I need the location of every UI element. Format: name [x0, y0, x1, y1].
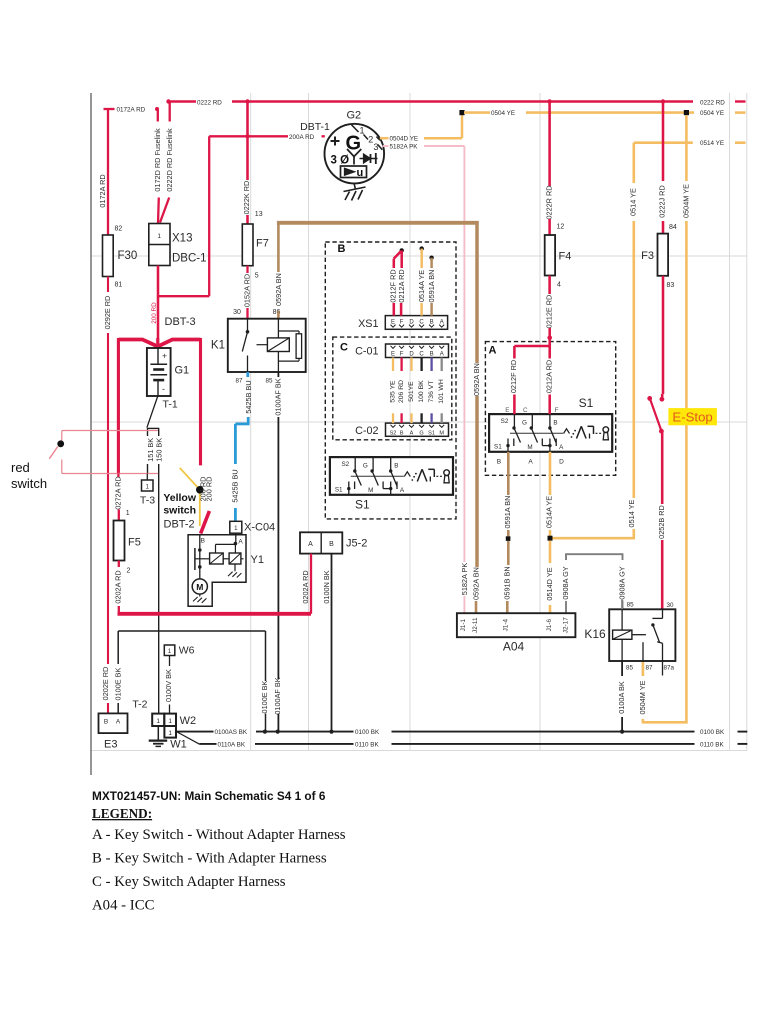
svg-text:+: + [162, 351, 167, 361]
svg-text:0202A RD: 0202A RD [301, 570, 310, 603]
svg-text:X13: X13 [172, 233, 192, 245]
svg-text:0222J RD: 0222J RD [657, 185, 666, 217]
svg-text:0504M YE: 0504M YE [682, 184, 691, 218]
svg-text:A: A [308, 541, 313, 548]
svg-text:E: E [505, 407, 509, 414]
svg-text:F5: F5 [128, 537, 141, 549]
svg-text:C-01: C-01 [355, 346, 378, 358]
svg-text:0514 YE: 0514 YE [628, 188, 637, 216]
svg-text:501YE: 501YE [408, 381, 415, 402]
svg-text:4: 4 [557, 282, 561, 289]
svg-text:M: M [196, 582, 203, 592]
svg-text:0514 YE: 0514 YE [627, 499, 636, 527]
svg-text:0592A BN: 0592A BN [471, 567, 480, 600]
svg-text:-: - [162, 384, 165, 394]
svg-text:A: A [489, 345, 497, 357]
svg-text:0514 YE: 0514 YE [700, 140, 724, 147]
svg-text:84: 84 [669, 224, 677, 231]
svg-text:81: 81 [115, 282, 123, 289]
svg-text:Yellow: Yellow [163, 492, 197, 504]
svg-text:A: A [440, 319, 444, 325]
svg-text:85: 85 [265, 378, 273, 385]
svg-text:C - Key Switch Adapter Harness: C - Key Switch Adapter Harness [92, 874, 286, 890]
svg-text:A: A [410, 430, 414, 436]
svg-text:3 Ø: 3 Ø [331, 155, 350, 167]
svg-text:B: B [430, 319, 434, 325]
svg-text:MXT021457-UN: Main Schematic S: MXT021457-UN: Main Schematic S4 1 of 6 [92, 789, 326, 803]
svg-text:F: F [400, 319, 404, 325]
svg-text:J1-1: J1-1 [460, 619, 467, 632]
svg-text:A04: A04 [503, 640, 525, 654]
svg-text:K16: K16 [584, 627, 606, 641]
svg-text:0100E BK: 0100E BK [260, 680, 269, 713]
svg-text:0591A BN: 0591A BN [503, 496, 512, 529]
svg-text:0110 BK: 0110 BK [355, 741, 379, 748]
svg-text:0172A RD: 0172A RD [117, 107, 146, 114]
svg-text:B: B [497, 458, 501, 465]
svg-text:S2: S2 [501, 418, 509, 425]
svg-text:0100AS BK: 0100AS BK [215, 729, 248, 736]
svg-text:B: B [400, 430, 404, 436]
svg-text:0272A RD: 0272A RD [114, 476, 123, 509]
svg-text:B: B [338, 243, 346, 255]
svg-text:0100AF BK: 0100AF BK [273, 677, 282, 714]
svg-text:X-C04: X-C04 [244, 522, 275, 534]
svg-text:85: 85 [627, 602, 635, 609]
svg-text:0222 RD: 0222 RD [197, 99, 222, 106]
svg-text:S1: S1 [494, 444, 502, 451]
svg-text:206 RD: 206 RD [398, 380, 405, 403]
svg-text:T-3: T-3 [140, 495, 155, 507]
svg-text:535 YE: 535 YE [390, 380, 397, 403]
svg-text:0110A BK: 0110A BK [218, 741, 246, 748]
svg-text:u: u [357, 167, 364, 179]
svg-text:W2: W2 [180, 715, 197, 727]
svg-text:0212A RD: 0212A RD [397, 269, 406, 302]
svg-text:B: B [104, 718, 108, 725]
svg-text:0504D YE: 0504D YE [390, 136, 419, 143]
svg-text:0292E RD: 0292E RD [103, 296, 112, 330]
svg-text:0202A RD: 0202A RD [113, 570, 122, 603]
svg-text:0504 YE: 0504 YE [491, 110, 515, 117]
svg-text:B: B [201, 538, 205, 545]
svg-text:30: 30 [233, 309, 241, 316]
svg-text:C: C [523, 407, 528, 414]
svg-text:W1: W1 [170, 739, 187, 751]
svg-text:0592A BN: 0592A BN [274, 273, 283, 306]
svg-text:W6: W6 [179, 645, 195, 657]
svg-text:J5-2: J5-2 [346, 538, 367, 550]
svg-text:0504 YE: 0504 YE [700, 110, 724, 117]
svg-text:F7: F7 [256, 238, 269, 250]
svg-text:0152A RD: 0152A RD [242, 274, 251, 307]
svg-text:85: 85 [626, 665, 634, 672]
svg-text:F30: F30 [118, 250, 138, 262]
svg-text:J2-11: J2-11 [472, 617, 479, 633]
svg-text:101 WH: 101 WH [438, 379, 445, 404]
svg-text:0100 BK: 0100 BK [355, 729, 380, 736]
svg-text:1: 1 [168, 730, 172, 737]
svg-text:0514A YE: 0514A YE [545, 496, 554, 528]
svg-text:0212A RD: 0212A RD [545, 360, 554, 393]
svg-text:B: B [430, 351, 434, 357]
svg-text:F: F [555, 407, 559, 414]
svg-text:M: M [527, 444, 532, 451]
svg-text:1: 1 [157, 233, 161, 240]
svg-text:0222R RD: 0222R RD [545, 185, 554, 219]
svg-text:S2: S2 [390, 430, 397, 436]
svg-text:0592A BN: 0592A BN [472, 363, 481, 396]
svg-text:B: B [553, 420, 557, 427]
svg-text:0514D YE: 0514D YE [545, 567, 554, 600]
svg-text:G: G [522, 420, 527, 427]
svg-text:0212F RD: 0212F RD [509, 360, 518, 393]
svg-text:82: 82 [115, 226, 123, 233]
svg-text:A04 - ICC: A04 - ICC [92, 898, 155, 914]
svg-text:1: 1 [145, 484, 149, 491]
svg-text:87a: 87a [664, 665, 675, 672]
svg-text:M: M [439, 430, 444, 436]
svg-text:K1: K1 [211, 340, 225, 352]
svg-text:S1: S1 [428, 430, 435, 436]
svg-text:1: 1 [168, 718, 172, 725]
svg-text:200 RD: 200 RD [151, 302, 158, 324]
svg-text:red: red [11, 460, 30, 475]
svg-text:A - Key Switch - Without Adapt: A - Key Switch - Without Adapter Harness [92, 827, 346, 843]
svg-text:D: D [559, 458, 564, 465]
svg-text:150 BK: 150 BK [155, 438, 164, 462]
svg-text:83: 83 [667, 282, 675, 289]
svg-text:T-2: T-2 [132, 699, 147, 711]
svg-text:B - Key Switch - With Adapter: B - Key Switch - With Adapter Harness [92, 851, 327, 867]
svg-text:G2: G2 [347, 110, 362, 122]
svg-text:switch: switch [163, 505, 196, 517]
svg-text:DBT-2: DBT-2 [164, 519, 195, 531]
svg-text:DBT-1: DBT-1 [300, 121, 330, 133]
svg-text:0514A YE: 0514A YE [417, 270, 426, 302]
svg-text:5425B BU: 5425B BU [230, 469, 239, 502]
svg-text:0202E RD: 0202E RD [101, 667, 110, 701]
svg-text:0222K RD: 0222K RD [242, 181, 251, 215]
svg-text:A: A [238, 539, 243, 546]
svg-text:1: 1 [168, 648, 172, 655]
svg-text:1: 1 [360, 126, 365, 136]
svg-text:0591B BN: 0591B BN [502, 566, 511, 599]
svg-text:F4: F4 [559, 251, 572, 263]
svg-text:C-02: C-02 [355, 425, 378, 437]
svg-text:12: 12 [557, 224, 565, 231]
svg-text:J2-17: J2-17 [563, 617, 570, 633]
svg-text:0212E RD: 0212E RD [545, 295, 554, 329]
svg-text:5425B BU: 5425B BU [244, 380, 253, 413]
svg-text:E: E [391, 351, 395, 357]
svg-text:3: 3 [374, 142, 379, 152]
svg-text:87: 87 [646, 665, 654, 672]
svg-text:C: C [340, 342, 348, 354]
svg-text:D: D [409, 351, 414, 357]
svg-text:C: C [419, 351, 424, 357]
svg-text:5: 5 [255, 273, 259, 280]
svg-text:DBT-3: DBT-3 [165, 316, 196, 328]
svg-text:F3: F3 [641, 250, 654, 262]
svg-text:0252B RD: 0252B RD [657, 505, 666, 539]
svg-text:0100V BK: 0100V BK [164, 669, 173, 702]
svg-text:5182A PK: 5182A PK [390, 144, 419, 151]
svg-text:0100N BK: 0100N BK [322, 570, 331, 603]
svg-text:87: 87 [235, 378, 243, 385]
svg-text:J1-6: J1-6 [546, 619, 553, 632]
svg-text:1: 1 [156, 718, 160, 725]
svg-text:0172D RD Fuselink: 0172D RD Fuselink [153, 128, 162, 192]
svg-text:0172A RD: 0172A RD [98, 174, 107, 207]
svg-text:E: E [391, 319, 395, 325]
svg-text:0222D RD Fuselink: 0222D RD Fuselink [165, 128, 174, 192]
svg-text:Y1: Y1 [251, 554, 264, 566]
svg-text:1: 1 [234, 525, 238, 532]
svg-text:0504M YE: 0504M YE [638, 680, 647, 714]
svg-text:J1-4: J1-4 [502, 619, 509, 632]
svg-text:5182A PK: 5182A PK [460, 563, 469, 596]
svg-text:100 BK: 100 BK [418, 380, 425, 403]
svg-text:G: G [419, 430, 423, 436]
svg-text:0908A GY: 0908A GY [617, 566, 626, 599]
svg-text:LEGEND:: LEGEND: [92, 806, 152, 821]
svg-text:0100 BK: 0100 BK [700, 729, 725, 736]
svg-text:0591A BN: 0591A BN [427, 270, 436, 303]
svg-text:0222 RD: 0222 RD [700, 99, 725, 106]
svg-text:DBC-1: DBC-1 [172, 253, 207, 265]
svg-text:S1: S1 [579, 396, 594, 410]
svg-text:0908A GY: 0908A GY [561, 566, 570, 599]
svg-text:30: 30 [667, 602, 675, 609]
svg-text:A: A [528, 458, 533, 465]
svg-text:E-Stop: E-Stop [672, 410, 712, 425]
svg-text:200 RD: 200 RD [204, 477, 213, 502]
svg-text:736 VT: 736 VT [428, 381, 435, 403]
svg-text:2: 2 [127, 568, 131, 575]
svg-text:S1: S1 [355, 498, 370, 512]
svg-text:0100AF BK: 0100AF BK [274, 378, 283, 415]
svg-text:G1: G1 [175, 365, 190, 377]
svg-text:1: 1 [126, 510, 130, 517]
svg-text:XS1: XS1 [358, 318, 378, 330]
svg-text:T-1: T-1 [163, 399, 178, 411]
svg-text:13: 13 [255, 211, 263, 218]
svg-text:E3: E3 [104, 739, 117, 751]
svg-text:F: F [400, 351, 404, 357]
svg-text:0110 BK: 0110 BK [700, 741, 724, 748]
svg-text:B: B [329, 541, 334, 548]
svg-text:A: A [116, 718, 121, 725]
svg-text:switch: switch [11, 476, 47, 491]
svg-text:A: A [440, 351, 444, 357]
svg-text:0100A BK: 0100A BK [617, 681, 626, 714]
svg-text:0100E BK: 0100E BK [113, 667, 122, 700]
svg-text:200A RD: 200A RD [289, 134, 315, 141]
